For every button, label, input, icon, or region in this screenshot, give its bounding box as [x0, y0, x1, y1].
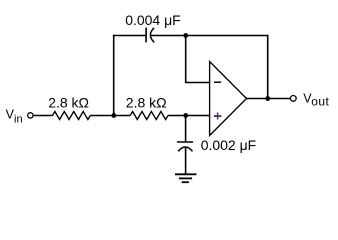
wire node A up to top rail — [113, 35, 115, 116]
wire right rail down to output — [267, 35, 269, 99]
wire node A to R2 — [114, 115, 130, 117]
node Vout label — [303, 91, 329, 108]
wire R2 to non-inverting input through node B — [168, 115, 210, 117]
wire R1 to node A — [90, 115, 113, 117]
node Vin label — [6, 108, 23, 126]
node B junction dot — [183, 113, 188, 118]
wire top rail left segment to C1 — [113, 35, 146, 37]
svg-text:0.004 μF: 0.004 μF — [125, 12, 181, 28]
terminal Vin — [28, 113, 33, 118]
op-amp U1 — [210, 62, 247, 136]
svg-text:2.8 kΩ: 2.8 kΩ — [48, 95, 89, 111]
terminal Vout — [290, 96, 296, 102]
ground — [175, 174, 196, 182]
svg-text:out: out — [311, 94, 329, 108]
node output junction dot — [265, 96, 270, 101]
wire top rail right segment from C1 to right rail — [151, 35, 269, 37]
node junction dot top rail — [183, 33, 188, 38]
wire output — [247, 98, 291, 100]
node A junction dot — [111, 113, 116, 118]
pin plus — [214, 115, 222, 117]
wire C2 to ground — [185, 147, 187, 174]
svg-text:in: in — [14, 113, 23, 125]
wire feedback down from top rail — [185, 36, 187, 83]
capacitor C1 0.004 uF — [146, 28, 154, 43]
svg-text:2.8 kΩ: 2.8 kΩ — [126, 95, 167, 111]
resistor R1 — [53, 112, 91, 120]
wire to inverting input — [185, 82, 210, 84]
resistor R2 — [130, 112, 168, 120]
capacitor C2 0.002 uF — [177, 142, 193, 151]
svg-text:0.002 μF: 0.002 μF — [201, 137, 257, 153]
wire node B down to C2 — [185, 116, 187, 143]
pin minus — [214, 81, 221, 83]
wire Vin terminal to R1 — [34, 115, 53, 117]
